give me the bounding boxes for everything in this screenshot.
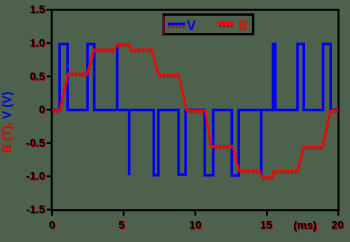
svg-text:B: B xyxy=(238,18,248,33)
svg-text:0.5: 0.5 xyxy=(30,71,45,83)
legend left border red fringe xyxy=(163,17,165,35)
svg-text:20: 20 xyxy=(331,220,343,232)
svg-text:-1.0: -1.0 xyxy=(26,171,45,183)
svg-text:1.0: 1.0 xyxy=(30,38,45,50)
plot frame red fringe xyxy=(45,10,340,212)
svg-text:-0.5: -0.5 xyxy=(26,137,45,149)
svg-text:10: 10 xyxy=(189,220,201,232)
x ticks xyxy=(52,210,338,216)
svg-text:B (T), V (V): B (T), V (V) xyxy=(0,92,14,153)
plot frame xyxy=(52,10,339,210)
red B curve marker shadow (dotted, offset below) xyxy=(53,46,339,179)
svg-text:5: 5 xyxy=(118,220,124,232)
red B curve xyxy=(53,44,339,177)
blue V square wave xyxy=(53,44,339,176)
svg-text:0: 0 xyxy=(39,104,45,116)
x tick labels xyxy=(49,220,345,234)
svg-text:1.5: 1.5 xyxy=(30,4,45,16)
svg-text:0: 0 xyxy=(49,220,55,232)
svg-text:15: 15 xyxy=(260,220,272,232)
legend red sample line with dark marker dots xyxy=(220,25,234,27)
y tick labels xyxy=(26,4,46,217)
svg-text:-1.5: -1.5 xyxy=(26,204,45,216)
svg-text:V: V xyxy=(187,18,196,33)
legend blue sample line with red marker dots xyxy=(169,26,185,28)
y axis title rotated: red B (T), blue V (V) xyxy=(0,92,14,153)
svg-text:(ms): (ms) xyxy=(293,220,317,232)
y ticks xyxy=(47,10,52,210)
legend box xyxy=(164,15,253,35)
